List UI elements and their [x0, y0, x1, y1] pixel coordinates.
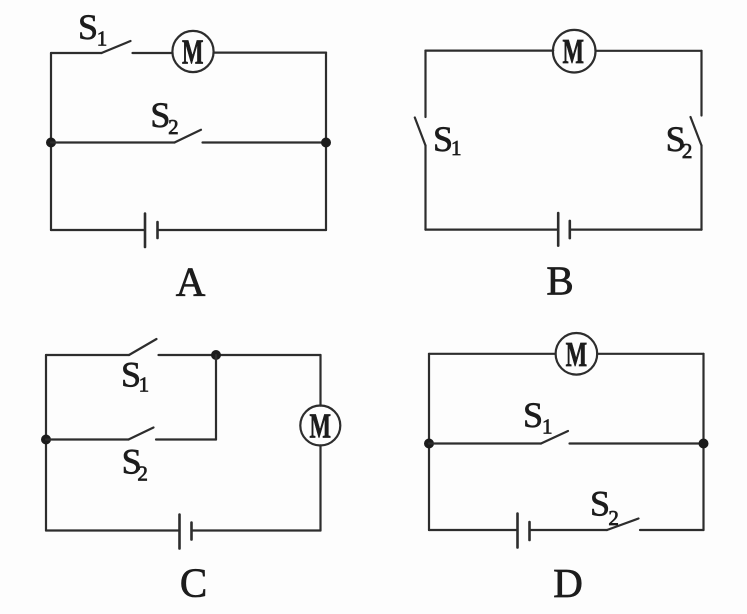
wire C left vertical	[45, 355, 47, 531]
wire C bottom-right segment	[192, 529, 321, 531]
wire C top-left segment	[46, 354, 129, 356]
wire D bottom-left segment	[429, 529, 518, 531]
motor M (circuit C)	[300, 406, 340, 446]
battery cell (circuit D)	[518, 514, 530, 548]
svg-text:2: 2	[608, 506, 619, 530]
svg-text:C: C	[180, 559, 207, 605]
wire B right vertical lower	[700, 146, 702, 230]
svg-text:S: S	[523, 395, 543, 435]
svg-text:1: 1	[542, 415, 553, 439]
svg-text:2: 2	[168, 115, 179, 139]
wire B top-left segment	[426, 49, 554, 51]
label S2 (circuit A)	[150, 95, 178, 139]
wire A bottom-right segment	[158, 229, 327, 231]
svg-text:M: M	[310, 406, 332, 445]
battery cell (circuit B)	[558, 213, 570, 246]
svg-text:1: 1	[451, 136, 462, 160]
wire B right vertical upper	[700, 51, 702, 116]
wire B bottom-right segment	[570, 229, 702, 231]
wire C middle-left segment	[46, 438, 129, 440]
label S2 (circuit B)	[666, 119, 693, 163]
wire C right vertical lower	[319, 445, 321, 530]
wire C top-right segment	[159, 354, 321, 356]
svg-text:1: 1	[97, 27, 108, 51]
motor M (circuit B)	[553, 30, 596, 73]
wire B bottom-left segment	[426, 229, 559, 231]
svg-text:A: A	[176, 259, 206, 305]
switch S1 (circuit D) blade	[541, 431, 568, 444]
node dot C middle-left	[41, 435, 51, 445]
label S2 (circuit D)	[590, 484, 619, 531]
label S1 (circuit C)	[121, 355, 149, 397]
svg-text:S: S	[590, 484, 610, 524]
switch S2 (circuit A) blade	[175, 130, 202, 143]
label S1 (circuit B)	[433, 119, 462, 160]
wire B left vertical lower	[424, 146, 426, 230]
switch S2 (circuit B) blade	[691, 117, 702, 146]
svg-text:M: M	[182, 33, 204, 72]
wire D right vertical	[702, 354, 704, 530]
wire C vertical drop from top node	[215, 355, 217, 440]
switch S2 (circuit C) blade	[129, 428, 154, 440]
svg-text:D: D	[553, 560, 583, 606]
wire C bottom-left segment	[46, 529, 180, 531]
switch S1 (circuit B) blade	[415, 118, 426, 146]
svg-text:2: 2	[682, 139, 693, 163]
label S1 (circuit A)	[78, 7, 107, 51]
svg-text:B: B	[546, 258, 573, 304]
wire D middle-right segment	[570, 442, 704, 444]
node dot D middle-left	[424, 439, 434, 449]
wire C right vertical upper	[319, 355, 321, 406]
wire D bottom-middle segment	[530, 529, 608, 531]
label S1 (circuit D)	[523, 395, 553, 439]
wire A right vertical	[325, 53, 327, 230]
label S2 (circuit C)	[122, 442, 148, 486]
wire A top segment to motor	[133, 52, 173, 54]
battery cell (circuit C)	[180, 515, 192, 549]
switch S1 (circuit A) blade	[102, 41, 131, 53]
svg-text:1: 1	[139, 373, 150, 397]
battery cell (circuit A)	[145, 214, 158, 248]
wire B left vertical upper	[424, 51, 426, 117]
wire A left vertical	[50, 53, 52, 230]
wire B top-right segment	[596, 50, 702, 52]
switch S1 (circuit C) blade	[129, 339, 157, 355]
wire A bottom-left segment	[51, 229, 145, 231]
node dot C top	[211, 350, 221, 360]
wire A middle-right segment	[203, 141, 327, 143]
motor M (circuit D)	[556, 333, 598, 375]
wire D bottom-right segment	[640, 529, 704, 531]
switch S2 (circuit D) blade	[607, 519, 639, 531]
node dot A middle-left	[46, 138, 56, 148]
wire A top-right segment	[214, 51, 326, 53]
wire C middle-right segment	[156, 438, 216, 440]
wire A top-left segment	[51, 52, 102, 54]
svg-text:M: M	[563, 32, 585, 71]
wire D middle-left segment	[429, 442, 541, 444]
wire D top-right segment	[597, 353, 703, 355]
motor M (circuit A)	[172, 31, 213, 72]
svg-text:S: S	[78, 7, 98, 47]
svg-text:2: 2	[137, 462, 148, 486]
svg-text:M: M	[566, 335, 588, 374]
wire D top-left segment	[429, 353, 556, 355]
wire A middle-left segment	[51, 141, 175, 143]
wire D left vertical	[428, 354, 430, 530]
node dot D middle-right	[699, 439, 709, 449]
node dot A middle-right	[321, 138, 331, 148]
